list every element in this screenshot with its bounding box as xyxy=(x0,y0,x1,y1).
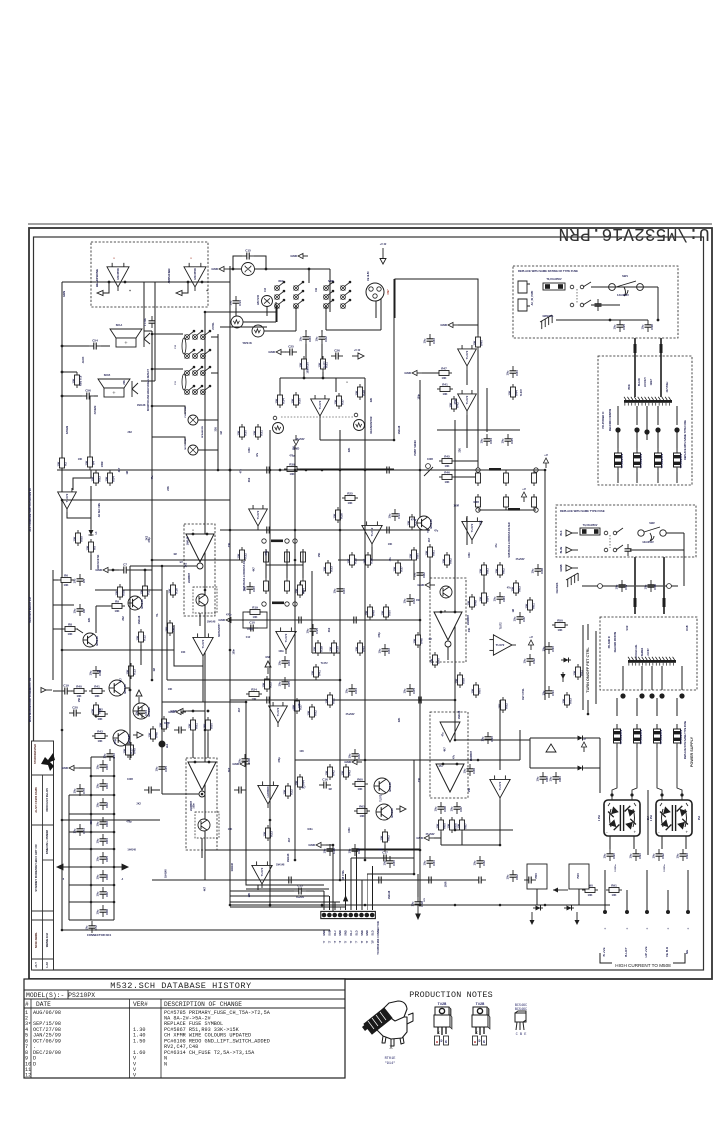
wire xyxy=(617,472,619,483)
svg-text:R80: R80 xyxy=(416,553,420,559)
svg-text:+: + xyxy=(626,926,629,931)
svg-text:15K: 15K xyxy=(572,670,576,675)
svg-text:1M: 1M xyxy=(328,788,331,791)
power arrow up q4 xyxy=(136,690,142,703)
svg-text:10u: 10u xyxy=(96,783,100,788)
wire xyxy=(422,372,445,374)
junction xyxy=(61,929,64,932)
wire xyxy=(53,579,58,581)
svg-text:C42: C42 xyxy=(532,658,536,664)
svg-text:13A/250V: 13A/250V xyxy=(642,540,654,544)
svg-text:R66 6.8: R66 6.8 xyxy=(79,375,83,386)
svg-text:10K: 10K xyxy=(115,609,120,613)
wire vertical bus 246 xyxy=(245,702,247,845)
TO-220 package drawing 2 xyxy=(472,1007,490,1035)
svg-text:10K: 10K xyxy=(445,464,450,468)
svg-text:'2': '2' xyxy=(328,940,331,943)
wire pin xyxy=(334,902,336,910)
svg-text:15K: 15K xyxy=(72,536,76,541)
terminal circle xyxy=(285,602,289,606)
resistor R52 xyxy=(497,697,508,713)
capacitor bank CB xyxy=(73,824,86,836)
wire xyxy=(321,344,323,360)
junction bank xyxy=(113,866,116,869)
svg-text:+: + xyxy=(646,926,649,931)
svg-text:LM4580: LM4580 xyxy=(266,786,270,797)
svg-text:JA T: JA T xyxy=(34,962,38,968)
svg-text:1M: 1M xyxy=(126,471,129,474)
col line date xyxy=(129,999,131,1078)
svg-text:CHASSIS: CHASSIS xyxy=(556,582,559,593)
svg-text:100R: 100R xyxy=(453,505,459,508)
svg-text:C25: C25 xyxy=(412,688,416,694)
capacitor C81 xyxy=(549,772,562,784)
resistor R8 xyxy=(62,622,78,635)
svg-text:10u: 10u xyxy=(243,586,247,591)
svg-text:M532.SCH DATABASE HISTORY: M532.SCH DATABASE HISTORY xyxy=(110,981,251,991)
wire vertical bus xyxy=(544,470,546,700)
arrow input left2 xyxy=(176,290,182,295)
svg-text:'1': '1' xyxy=(323,940,326,943)
svg-text:R51: R51 xyxy=(332,698,336,704)
svg-text:15K: 15K xyxy=(468,788,471,793)
thick mark xyxy=(634,598,637,607)
svg-text:T3,15A/250V: T3,15A/250V xyxy=(583,524,598,527)
wire xyxy=(211,372,218,374)
wire xyxy=(144,281,155,283)
svg-text:C70: C70 xyxy=(82,788,86,794)
svg-text:R30: R30 xyxy=(306,362,310,368)
svg-text:15K: 15K xyxy=(252,430,256,435)
junction xyxy=(657,319,660,322)
svg-text:C48: C48 xyxy=(653,584,657,590)
svg-text:C1#: C1# xyxy=(246,636,251,639)
wire vertical bus 295 xyxy=(294,445,296,860)
capacitor C26 xyxy=(331,349,343,360)
capacitor bank C68 xyxy=(96,905,109,917)
svg-text:C82: C82 xyxy=(422,572,426,578)
resistor R80 xyxy=(408,547,419,563)
svg-text:C28: C28 xyxy=(332,848,336,854)
svg-text:470p: 470p xyxy=(114,738,117,744)
wire xyxy=(53,690,60,692)
wire xyxy=(478,759,520,761)
svg-text:16V: 16V xyxy=(424,898,426,902)
wire xyxy=(53,628,63,630)
svg-text:GND: GND xyxy=(404,371,412,375)
trim jack 2 xyxy=(188,445,218,455)
ground arrow bank xyxy=(61,765,79,770)
chassis ground 2 xyxy=(564,573,581,587)
svg-text:x: x xyxy=(190,257,192,260)
resistor R51b xyxy=(187,717,198,733)
svg-text:15K: 15K xyxy=(340,770,344,775)
svg-text:R54: R54 xyxy=(112,476,116,482)
ground arrow xyxy=(293,435,301,451)
resistor R25 xyxy=(342,491,358,504)
resistor R46b xyxy=(147,726,158,742)
wire xyxy=(437,429,520,431)
svg-text:R81: R81 xyxy=(432,550,436,556)
svg-text:15K: 15K xyxy=(456,823,460,828)
wire xyxy=(275,302,277,322)
TO-92 package drawing xyxy=(515,1011,526,1030)
resistor RX16 xyxy=(412,632,423,648)
svg-text:SND: SND xyxy=(344,930,348,936)
resistor R91 xyxy=(606,883,622,896)
resistor subbass grid R xyxy=(532,470,537,486)
capacitor C7 xyxy=(119,563,131,574)
wire xyxy=(236,619,243,621)
switch contact SW1a xyxy=(570,282,591,289)
jack switch contact L xyxy=(144,331,150,347)
wire horizontal bus xyxy=(300,468,394,470)
diode D13 xyxy=(575,736,585,741)
capacitor CH15 xyxy=(524,877,536,884)
ref marker triangle xyxy=(546,744,556,752)
wire out 1b xyxy=(306,890,324,892)
svg-text:47u/63V: 47u/63V xyxy=(425,833,434,836)
svg-text:15K: 15K xyxy=(424,550,428,555)
switch contact SW1b xyxy=(570,300,591,307)
capacitor CX3 xyxy=(378,644,391,656)
resistor R52b xyxy=(158,716,169,732)
svg-text:15K: 15K xyxy=(56,461,60,466)
svg-text:GRNB: GRNB xyxy=(560,564,563,571)
wire xyxy=(417,874,419,897)
capacitor C47 xyxy=(615,580,628,592)
junction xyxy=(454,699,457,702)
wire horizontal bus xyxy=(62,819,160,821)
table outer xyxy=(24,979,345,1078)
svg-text:10u: 10u xyxy=(501,438,505,443)
wire flank right xyxy=(595,631,597,704)
resistor R12 xyxy=(135,629,146,645)
svg-text:x: x xyxy=(194,757,196,760)
svg-text:BC546: BC546 xyxy=(140,599,144,609)
svg-text:7E/3C/2#1 9ELD3 14#: 7E/3C/2#1 9ELD3 14# xyxy=(28,596,32,623)
wire xyxy=(94,395,98,397)
junction bank xyxy=(113,813,116,816)
prot contact circle xyxy=(426,464,431,469)
svg-text:HEADPHONE: HEADPHONE xyxy=(95,269,99,287)
junction xyxy=(151,559,154,562)
svg-text:C20: C20 xyxy=(72,706,78,710)
svg-text:10u: 10u xyxy=(345,688,349,693)
svg-text:R30: R30 xyxy=(244,430,248,436)
wire xyxy=(188,710,205,712)
svg-text:C60: C60 xyxy=(105,764,109,770)
svg-text:R50: R50 xyxy=(388,610,392,616)
wire xyxy=(466,370,468,385)
svg-text:15K: 15K xyxy=(364,610,368,615)
bridge rectifier BR2 xyxy=(656,800,692,836)
wire rail xyxy=(280,377,365,379)
wire headphone through R xyxy=(155,281,230,283)
title block divider xyxy=(32,910,54,912)
svg-text:R32: R32 xyxy=(244,553,248,559)
junction bus905 xyxy=(321,904,324,907)
wire output xyxy=(667,890,669,912)
capacitor CX12 xyxy=(473,856,486,868)
svg-text:47u: 47u xyxy=(151,475,154,480)
svg-text:15K: 15K xyxy=(290,398,294,403)
svg-text:100n: 100n xyxy=(298,702,301,708)
wire xyxy=(617,432,619,448)
table row 6 xyxy=(25,1038,270,1044)
svg-text:GRN: GRN xyxy=(62,291,66,297)
svg-text:T2,5A/250V: T2,5A/250V xyxy=(679,453,683,468)
junction bank xyxy=(90,775,93,778)
junction xyxy=(644,429,649,434)
junction xyxy=(419,849,422,852)
svg-text:10K: 10K xyxy=(181,651,186,654)
resistor R23 xyxy=(261,676,272,692)
svg-text:10u: 10u xyxy=(473,860,477,865)
svg-text:4K7: 4K7 xyxy=(238,707,241,712)
wire right rail 218 xyxy=(217,334,219,470)
svg-text:15K: 15K xyxy=(362,558,366,563)
svg-text:10K: 10K xyxy=(612,893,617,897)
svg-text:10u: 10u xyxy=(644,584,648,589)
svg-text:1N4148: 1N4148 xyxy=(231,862,234,871)
svg-text:C23: C23 xyxy=(387,648,391,654)
wire xyxy=(616,698,618,716)
capacitor CH0 xyxy=(262,467,274,474)
junction xyxy=(217,469,220,472)
svg-text:15K: 15K xyxy=(298,362,302,367)
svg-text:15K: 15K xyxy=(122,748,126,753)
table row 4 xyxy=(25,1027,240,1033)
svg-text:TL072: TL072 xyxy=(201,639,205,648)
svg-text:15K: 15K xyxy=(236,430,240,435)
svg-text:SCR: SCR xyxy=(627,625,629,630)
wire xyxy=(332,845,334,911)
resistor subbass grid L xyxy=(285,549,290,565)
wire out 6 xyxy=(246,888,329,890)
jack socket J3 xyxy=(231,316,243,328)
op-amp IC7,B xyxy=(252,861,272,888)
wire xyxy=(486,388,488,432)
wire vertical bus 420 xyxy=(419,380,421,905)
junction xyxy=(229,469,232,472)
wire horizontal bus xyxy=(205,849,420,851)
svg-text:9BIME K3#: 9BIME K3# xyxy=(45,932,49,947)
resistor RX11 xyxy=(310,664,321,680)
svg-text:MSTR VOL: MSTR VOL xyxy=(185,438,187,450)
power arrow down xyxy=(380,248,386,264)
capacitor bank C60 xyxy=(96,760,109,772)
svg-text:47u: 47u xyxy=(239,469,242,474)
wire xyxy=(478,509,536,511)
capacitor CH3 xyxy=(382,527,394,534)
resistor R23b xyxy=(262,825,273,841)
col header line xyxy=(24,1007,345,1009)
svg-text:100R: 100R xyxy=(101,461,104,467)
svg-text:C6: C6 xyxy=(82,609,86,613)
terminal circle xyxy=(293,539,297,543)
svg-text:10K: 10K xyxy=(360,814,365,818)
svg-text:C39: C39 xyxy=(472,768,476,774)
resistor subbass grid L xyxy=(301,578,306,594)
dashed box headphone amplifier xyxy=(91,242,208,307)
svg-text:100R: 100R xyxy=(473,501,479,504)
svg-text:SK1A: SK1A xyxy=(116,324,123,327)
wire to BR1 b xyxy=(632,748,637,800)
transistor Q4 xyxy=(133,703,151,719)
resistor R6 xyxy=(58,573,74,586)
svg-text:15K: 15K xyxy=(354,390,358,395)
capacitor bank C63 xyxy=(96,817,109,829)
wiper bar xyxy=(271,540,283,543)
resistor RX25 xyxy=(72,530,83,546)
capacitor CH11 xyxy=(284,877,296,884)
terminal circle xyxy=(262,602,266,606)
junction xyxy=(364,859,367,862)
sheet inner border xyxy=(34,237,704,970)
svg-text:REC: REC xyxy=(278,280,283,283)
svg-text:C29: C29 xyxy=(357,848,361,854)
svg-text:C19: C19 xyxy=(63,684,69,688)
junction xyxy=(499,844,502,847)
svg-text:M5 CTRL: M5 CTRL xyxy=(343,869,345,880)
junction xyxy=(229,529,232,532)
svg-text:10u: 10u xyxy=(652,853,656,858)
wire xyxy=(326,329,381,331)
svg-text:15K: 15K xyxy=(406,520,410,525)
svg-text:10u: 10u xyxy=(348,753,352,758)
svg-text:TL072: TL072 xyxy=(65,493,69,502)
terminal circle xyxy=(262,539,266,543)
wire secondary xyxy=(676,406,678,425)
svg-text:100n: 100n xyxy=(307,828,313,831)
svg-text:R35: R35 xyxy=(298,398,302,404)
wire BR1 out xyxy=(609,836,611,849)
svg-text:R16: R16 xyxy=(175,588,179,594)
svg-text:10u: 10u xyxy=(155,766,159,771)
wire xyxy=(499,700,501,770)
op-amp IC6,D xyxy=(458,345,477,370)
svg-text:10u: 10u xyxy=(629,853,633,858)
ground arrow xyxy=(170,708,188,713)
potentiometer drawing RV xyxy=(377,1001,413,1046)
svg-text:10u: 10u xyxy=(73,578,77,583)
transistor Q1 xyxy=(128,596,144,610)
svg-text:1 25A: 1 25A xyxy=(650,815,653,821)
transistor in module L xyxy=(196,594,208,606)
capacitor CX5 xyxy=(403,684,416,696)
earth terminal circle xyxy=(667,584,672,589)
junction xyxy=(61,499,64,502)
wire bank rung xyxy=(69,794,114,796)
junction xyxy=(294,529,297,532)
junction xyxy=(305,469,308,472)
wire t2 secondary xyxy=(641,666,643,690)
svg-text:C7: C7 xyxy=(123,563,127,567)
wire xyxy=(519,730,521,760)
ground arrow xyxy=(440,322,458,327)
resistor R9 xyxy=(109,599,125,612)
svg-text:10u: 10u xyxy=(513,616,517,621)
table row 9 xyxy=(25,1056,167,1062)
capacitor C13b xyxy=(388,509,401,521)
resistor R4 xyxy=(84,454,95,470)
resistor subbass grid L xyxy=(264,578,269,594)
svg-text:C93: C93 xyxy=(685,853,689,859)
svg-text:C22: C22 xyxy=(324,336,328,342)
svg-text:C B E: C B E xyxy=(516,1033,527,1037)
ground arrow xyxy=(218,617,236,622)
capacitor CX17 xyxy=(513,612,526,624)
wire xyxy=(375,301,377,318)
junction xyxy=(440,611,443,614)
wire mains neutral xyxy=(591,304,620,306)
junction xyxy=(151,333,154,336)
svg-text:10u: 10u xyxy=(306,628,310,633)
svg-text:TL072: TL072 xyxy=(323,361,326,369)
svg-text:B.LIFT: B.LIFT xyxy=(624,947,628,957)
svg-text:C66: C66 xyxy=(105,874,109,880)
svg-text:GND: GND xyxy=(417,583,425,587)
wiper bar xyxy=(508,508,520,511)
wire xyxy=(466,430,468,448)
power arrow up gnd xyxy=(265,661,271,674)
svg-text:PC#6314 CH_FUSE T2,5A->T3,15A: PC#6314 CH_FUSE T2,5A->T3,15A xyxy=(164,1050,255,1056)
junction xyxy=(332,844,335,847)
svg-text:15K: 15K xyxy=(346,558,350,563)
resistor RX3 xyxy=(322,560,333,576)
junction xyxy=(151,679,154,682)
svg-text:"914": "914" xyxy=(385,1061,396,1066)
transistor Q11 xyxy=(376,804,394,820)
dashed sub box transistor R xyxy=(195,812,219,838)
resistor RX12 xyxy=(324,764,335,780)
resistor R82 xyxy=(441,552,452,568)
svg-text:C68: C68 xyxy=(105,909,109,915)
svg-text:470p: 470p xyxy=(126,821,132,824)
junction output xyxy=(645,910,649,914)
junction bus905 xyxy=(454,904,457,907)
capacitor C15b xyxy=(306,624,319,636)
svg-text:BLACK: BLACK xyxy=(638,378,641,386)
wire horizontal bus xyxy=(62,649,174,651)
wire horizontal bus xyxy=(230,619,420,621)
svg-text:ALL CD/MODE SWITCH SHOWN IN: ALL CD/MODE SWITCH SHOWN IN xyxy=(28,488,32,531)
svg-text:GND: GND xyxy=(440,323,448,327)
svg-text:1.50: 1.50 xyxy=(133,1038,145,1044)
terminal circle xyxy=(476,508,480,512)
wire xyxy=(455,829,513,831)
junction xyxy=(129,689,132,692)
capacitor C33 xyxy=(423,334,436,346)
svg-text:10K: 10K xyxy=(588,893,593,897)
svg-text:T2,5A/250V: T2,5A/250V xyxy=(639,729,643,744)
wire xyxy=(53,604,74,606)
svg-text:10u: 10u xyxy=(536,776,540,781)
resistor RX22 xyxy=(306,704,317,720)
wire xyxy=(266,306,268,316)
wiper bar xyxy=(272,602,284,605)
capacitor CX2 xyxy=(403,594,416,606)
svg-text:15K: 15K xyxy=(392,566,396,571)
svg-text:C63: C63 xyxy=(105,821,109,827)
arrow in earth xyxy=(566,565,578,571)
svg-text:100R: 100R xyxy=(306,367,309,373)
svg-text:1.A8: 1.A8 xyxy=(45,962,49,968)
wire xyxy=(322,372,324,378)
col line ver xyxy=(160,999,162,1078)
dashed contact link xyxy=(576,289,578,303)
